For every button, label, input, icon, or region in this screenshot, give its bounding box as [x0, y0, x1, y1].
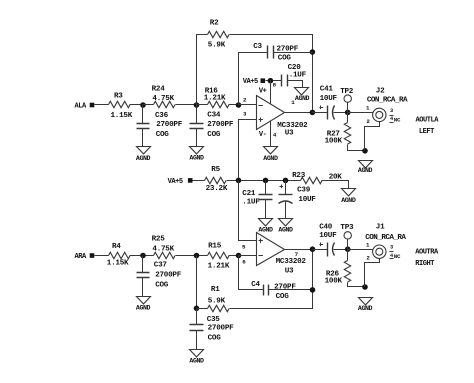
resistor R3: [109, 93, 133, 121]
wire C3 branch: [239, 53, 268, 105]
svg-text:COG: COG: [156, 131, 170, 139]
svg-text:C4: C4: [251, 281, 260, 289]
ground AGND C36: [136, 147, 151, 162]
svg-text:R24: R24: [152, 85, 166, 93]
resistor R15: [208, 242, 230, 270]
wire: [322, 181, 349, 189]
svg-text:270PF: 270PF: [274, 283, 296, 291]
svg-text:2700PF: 2700PF: [156, 121, 183, 129]
svg-text:NC: NC: [394, 116, 401, 123]
svg-text:C34: C34: [207, 112, 221, 120]
junction pin8: [268, 78, 274, 84]
svg-text:2: 2: [243, 97, 247, 104]
junction: [345, 110, 351, 116]
wire pin2: [239, 104, 257, 106]
J1 pin 3 NC: [390, 245, 394, 252]
junction: [362, 148, 368, 154]
capacitor C36: [137, 105, 183, 147]
junction: [194, 306, 200, 312]
capacitor C41: [320, 85, 348, 119]
test point TP3: [340, 224, 354, 250]
svg-text:AGND: AGND: [136, 304, 151, 311]
svg-text:R1: R1: [211, 286, 220, 294]
node ARA: [75, 253, 95, 261]
capacitor C37: [137, 256, 182, 297]
svg-text:U3: U3: [285, 130, 294, 138]
junction: [236, 102, 242, 108]
svg-text:V+: V+: [259, 88, 267, 96]
connector J2 CON_RCA_RA: [365, 88, 408, 151]
svg-text:AGND: AGND: [295, 95, 310, 102]
ground AGND C34: [189, 147, 204, 162]
junction: [310, 246, 316, 252]
node ALA: [75, 103, 95, 111]
svg-text:1.21K: 1.21K: [208, 262, 230, 270]
svg-text:10UF: 10UF: [319, 232, 337, 240]
svg-text:.1UF: .1UF: [289, 72, 307, 80]
wire: [313, 249, 328, 251]
svg-text:100K: 100K: [325, 277, 343, 285]
svg-text:10UF: 10UF: [298, 196, 316, 204]
svg-text:ALA: ALA: [75, 103, 88, 111]
wire: [95, 104, 109, 106]
svg-text:C35: C35: [207, 316, 221, 324]
capacitor C21: [242, 181, 272, 219]
svg-text:AOUTRA: AOUTRA: [415, 249, 439, 257]
wire: [230, 35, 313, 113]
wire: [229, 104, 239, 106]
ground AGND C35: [189, 350, 204, 365]
resistor R4: [107, 243, 130, 268]
svg-text:3: 3: [390, 245, 393, 251]
svg-text:C39: C39: [297, 186, 311, 194]
svg-text:4.75K: 4.75K: [152, 245, 174, 253]
svg-text:AGND: AGND: [341, 197, 356, 204]
svg-text:AGND: AGND: [263, 155, 278, 162]
svg-text:2700PF: 2700PF: [155, 272, 182, 280]
wire pin6: [239, 255, 257, 257]
svg-text:C37: C37: [154, 262, 168, 270]
resistor R1: [208, 286, 230, 312]
wire: [230, 250, 313, 309]
svg-text:5: 5: [242, 244, 246, 251]
svg-text:VA+5: VA+5: [168, 178, 183, 186]
wire: [229, 255, 239, 257]
svg-text:5.9K: 5.9K: [208, 42, 226, 50]
pin 4 V- stub: [259, 121, 277, 147]
ground AGND C21: [258, 219, 273, 234]
capacitor C3: [253, 43, 312, 63]
svg-text:RIGHT: RIGHT: [415, 260, 434, 268]
pin 8 V+ stub: [259, 81, 277, 104]
svg-text:LEFT: LEFT: [419, 128, 434, 136]
test point TP2: [340, 88, 354, 112]
ground AGND C39: [278, 219, 293, 234]
wire down to R1: [196, 256, 198, 309]
svg-text:COG: COG: [207, 131, 221, 139]
node AOUTRA: [415, 249, 439, 268]
junction: [345, 246, 351, 252]
svg-text:J2: J2: [376, 88, 385, 96]
svg-text:C21: C21: [242, 190, 256, 198]
svg-text:10UF: 10UF: [320, 95, 338, 103]
op-amp U3B MC33202: [242, 233, 306, 276]
svg-text:4.75K: 4.75K: [152, 95, 174, 103]
svg-text:AGND: AGND: [358, 167, 373, 174]
resistor R24: [152, 85, 176, 107]
svg-text:CON_RCA_RA: CON_RCA_RA: [367, 97, 408, 105]
wire R2 branch up: [197, 35, 208, 105]
svg-text:23.2K: 23.2K: [206, 185, 228, 193]
svg-text:C40: C40: [319, 224, 333, 232]
svg-text:R15: R15: [208, 242, 222, 250]
wire: [176, 255, 208, 257]
wire: [193, 180, 205, 182]
ground AGND J1: [358, 298, 373, 313]
J2 pin 3 NC: [390, 108, 394, 116]
capacitor C20: [282, 64, 307, 88]
ground AGND C37: [136, 297, 151, 312]
resistor R26: [325, 250, 365, 287]
svg-text:2: 2: [366, 255, 370, 262]
svg-text:COG: COG: [208, 334, 222, 342]
junction: [263, 178, 269, 184]
resistor R25: [152, 236, 176, 259]
svg-text:2700PF: 2700PF: [207, 121, 234, 129]
svg-text:8: 8: [273, 82, 277, 89]
capacitor C35: [190, 309, 235, 350]
wire: [266, 80, 282, 82]
resistor R23: [292, 172, 342, 184]
wire to J2: [348, 112, 373, 114]
junction: [194, 102, 200, 108]
wire: [197, 104, 208, 106]
wire: [313, 112, 328, 114]
junction C4 tap: [310, 287, 316, 293]
svg-text:2700PF: 2700PF: [208, 325, 235, 333]
wire: [176, 104, 197, 106]
pin 7 output wire: [285, 250, 313, 258]
capacitor C40: [319, 224, 347, 257]
connector J1 CON_RCA_RA: [365, 224, 407, 287]
node VA+5 (bias): [168, 178, 193, 186]
junction: [140, 102, 146, 108]
svg-text:MC33202: MC33202: [276, 258, 307, 266]
node VA+5 (top): [243, 78, 265, 86]
resistor R27: [325, 113, 365, 151]
pin 3 wire to bias: [239, 120, 257, 181]
resistor R2: [208, 20, 230, 50]
svg-text:U3: U3: [285, 268, 294, 276]
svg-text:100K: 100K: [325, 137, 343, 145]
svg-text:4: 4: [273, 132, 277, 139]
svg-text:AGND: AGND: [189, 358, 204, 365]
svg-text:.1UF: .1UF: [242, 198, 260, 206]
svg-text:AGND: AGND: [358, 305, 373, 312]
junction: [362, 284, 368, 290]
junction: [236, 178, 242, 184]
op-amp U3A MC33202: [243, 96, 308, 138]
node AOUTLA: [416, 117, 440, 136]
svg-text:1.15K: 1.15K: [107, 260, 129, 268]
resistor R16: [204, 88, 229, 108]
wire to J1: [348, 249, 373, 251]
svg-text:1: 1: [366, 241, 370, 248]
svg-text:AGND: AGND: [136, 155, 151, 162]
svg-text:V-: V-: [259, 131, 267, 139]
svg-text:6: 6: [242, 259, 246, 266]
svg-text:AGND: AGND: [258, 227, 273, 234]
ground AGND V-: [263, 147, 278, 162]
svg-text:ARA: ARA: [75, 253, 88, 261]
junction C3 tap: [310, 49, 316, 55]
svg-text:2: 2: [366, 118, 370, 125]
wire: [130, 255, 154, 257]
wire: [197, 308, 208, 310]
wire bias rail: [227, 180, 301, 182]
svg-text:R23: R23: [292, 172, 306, 180]
svg-text:C41: C41: [320, 85, 334, 93]
wire: [130, 104, 143, 106]
ground AGND C20: [295, 88, 310, 102]
svg-text:R2: R2: [210, 20, 219, 28]
svg-text:CON_RCA_RA: CON_RCA_RA: [365, 234, 406, 242]
svg-text:NC: NC: [394, 253, 401, 260]
svg-text:TP3: TP3: [340, 224, 354, 232]
junction: [310, 110, 316, 116]
svg-text:5.9K: 5.9K: [208, 297, 226, 305]
junction: [236, 253, 242, 259]
svg-text:TP2: TP2: [340, 88, 354, 96]
capacitor C34: [190, 105, 234, 147]
pin 1 output wire: [285, 99, 313, 113]
svg-text:J1: J1: [376, 224, 385, 232]
svg-text:1: 1: [366, 105, 370, 112]
svg-text:3: 3: [390, 108, 393, 114]
ground AGND R23: [341, 189, 356, 204]
resistor R5: [205, 166, 228, 193]
svg-text:R5: R5: [211, 166, 220, 174]
svg-text:3: 3: [243, 111, 247, 118]
svg-text:R25: R25: [152, 236, 166, 244]
svg-text:COG: COG: [278, 54, 292, 62]
ground AGND J2: [358, 161, 373, 175]
J1 pin 4 NC: [390, 253, 401, 260]
svg-text:C3: C3: [253, 43, 262, 51]
svg-text:AGND: AGND: [189, 155, 204, 162]
svg-text:R3: R3: [114, 93, 123, 101]
svg-text:1.21K: 1.21K: [204, 95, 226, 103]
J2 pin 4 NC: [390, 116, 401, 123]
svg-text:AGND: AGND: [278, 227, 293, 234]
capacitor C4: [251, 281, 312, 301]
svg-text:COG: COG: [276, 293, 290, 301]
junction: [194, 253, 200, 259]
svg-text:7: 7: [295, 251, 299, 258]
capacitor C39: [279, 181, 317, 219]
junction: [140, 253, 146, 259]
svg-text:1.15K: 1.15K: [111, 112, 133, 120]
svg-text:C36: C36: [155, 112, 169, 120]
wire: [143, 104, 154, 106]
svg-text:270PF: 270PF: [277, 46, 299, 54]
junction: [283, 178, 289, 184]
svg-text:COG: COG: [155, 282, 169, 290]
wire pin5 from bias: [239, 181, 257, 241]
svg-text:AOUTLA: AOUTLA: [416, 117, 440, 125]
wire: [95, 255, 109, 257]
svg-text:VA+5: VA+5: [243, 78, 258, 86]
wire pin6 to C4: [239, 256, 264, 290]
svg-text:R4: R4: [112, 243, 121, 251]
